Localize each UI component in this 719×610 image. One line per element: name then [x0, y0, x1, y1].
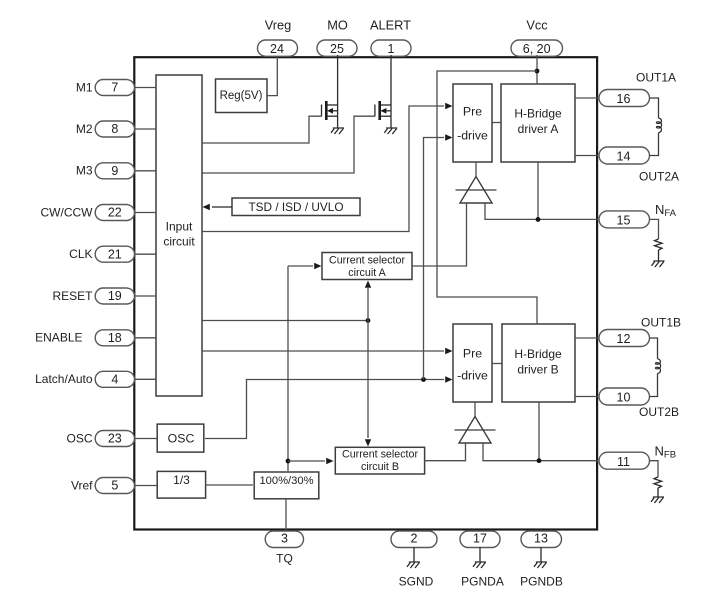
- wire junction to current selector B (arrow down): [365, 321, 371, 447]
- pin Vreg (24): [258, 18, 298, 57]
- svg-text:TSD / ISD / UVLO: TSD / ISD / UVLO: [248, 200, 343, 214]
- svg-text:25: 25: [330, 42, 344, 56]
- pin NFB (11): [599, 444, 676, 470]
- svg-text:5: 5: [111, 479, 118, 493]
- wire RESET to input circuit: [134, 295, 156, 297]
- svg-text:circuit B: circuit B: [361, 461, 399, 473]
- svg-text:OSC: OSC: [66, 431, 92, 445]
- svg-text:18: 18: [108, 331, 122, 345]
- svg-text:11: 11: [617, 455, 630, 469]
- svg-text:24: 24: [270, 42, 284, 56]
- svg-text:OUT1A: OUT1A: [636, 71, 676, 85]
- node NFB junction: [537, 458, 542, 463]
- current selector circuit B block: [335, 447, 424, 474]
- svg-text:OUT2B: OUT2B: [639, 405, 679, 419]
- TSD/ISD/UVLO block: [232, 198, 360, 216]
- pin Vcc (6, 20): [511, 18, 563, 57]
- svg-text:ENABLE: ENABLE: [35, 331, 82, 345]
- pin OUT1B (12): [599, 316, 681, 347]
- wire Vcc junction to H-bridge B: [437, 71, 537, 324]
- svg-text:Reg(5V): Reg(5V): [220, 90, 263, 102]
- svg-text:circuit: circuit: [163, 235, 195, 249]
- wire junction to current selector B left input (arrow): [288, 458, 334, 464]
- wire junction to pre-drive A lower input: [424, 134, 453, 379]
- pin TQ (3): [265, 531, 303, 566]
- svg-text:1/3: 1/3: [173, 473, 190, 487]
- svg-text:M3: M3: [76, 164, 93, 178]
- pin Latch/Auto (4): [35, 371, 134, 387]
- pre-drive A block: [453, 84, 492, 162]
- svg-text:21: 21: [108, 247, 122, 261]
- svg-text:OUT2A: OUT2A: [639, 170, 679, 184]
- wire TQ pin to 100%/30% block: [285, 499, 287, 532]
- svg-text:Current selector: Current selector: [329, 254, 405, 266]
- pin NFA (15): [599, 202, 677, 228]
- wire input circuit to pre-drive B upper input: [202, 348, 453, 354]
- node current selector feed junction: [366, 318, 371, 323]
- ground SGND: [407, 562, 420, 568]
- svg-text:Pre: Pre: [463, 105, 482, 119]
- svg-text:OUT1B: OUT1B: [641, 316, 681, 330]
- wire PGNDA pin to ground: [479, 548, 481, 563]
- wire H-bridge B to pin 10: [575, 396, 598, 398]
- svg-text:19: 19: [108, 289, 122, 303]
- svg-text:22: 22: [108, 206, 122, 220]
- comparator A: [456, 177, 497, 204]
- wire OSC pin to OSC block: [134, 438, 157, 440]
- svg-text:4: 4: [111, 373, 118, 387]
- MOSFET Q1 (MO open-drain output): [322, 55, 338, 128]
- pin M2 (8): [76, 121, 135, 137]
- pin CLK (21): [69, 246, 134, 262]
- wire input circuit to pre-drive A upper input: [202, 103, 453, 232]
- svg-text:Input: Input: [166, 220, 193, 234]
- pin PGNDA (17): [460, 531, 504, 589]
- pin OUT1A (16): [599, 71, 676, 107]
- wire H-bridge B to NFB node: [538, 402, 540, 461]
- wire current selector B to comparator B input: [424, 443, 466, 461]
- wire CW/CCW to input circuit: [134, 212, 156, 214]
- svg-text:17: 17: [473, 532, 487, 546]
- svg-text:10: 10: [617, 391, 631, 405]
- node NFA junction: [536, 217, 541, 222]
- svg-text:3: 3: [281, 532, 288, 546]
- wire 100%/30% output rail: [287, 266, 289, 471]
- MOSFET Q2 (ALERT open-drain output): [375, 55, 391, 128]
- node 100%/30% output junction: [286, 459, 291, 464]
- H-Bridge driver B block: [502, 324, 575, 402]
- resistor RNFA: [650, 219, 662, 260]
- OSC block: [157, 424, 204, 452]
- wire H-bridge A to pin 14: [575, 155, 598, 157]
- ground NFA: [652, 261, 665, 267]
- svg-text:2: 2: [411, 532, 418, 546]
- svg-text:12: 12: [617, 332, 631, 346]
- pin RESET (19): [52, 288, 134, 304]
- svg-text:Vref: Vref: [71, 478, 93, 492]
- svg-text:MO: MO: [327, 18, 348, 33]
- wire H-bridge B to pin 12: [575, 337, 598, 339]
- wire comparator A sense input: [485, 203, 538, 219]
- svg-text:7: 7: [111, 81, 118, 95]
- 1/3 block: [157, 471, 205, 498]
- pin OUT2B (10): [599, 388, 679, 419]
- svg-text:driver A: driver A: [518, 122, 559, 136]
- inductor load B: [650, 338, 661, 397]
- pin M1 (7): [76, 80, 135, 96]
- wire 1/3 to 100%/30%: [205, 484, 253, 486]
- wire pre-drive A to H-bridge A: [492, 122, 501, 124]
- pin OSC (23): [66, 431, 134, 447]
- wire Vref pin to 1/3 block: [134, 485, 157, 487]
- svg-text:-drive: -drive: [457, 128, 488, 142]
- ground PGNDB: [534, 562, 547, 568]
- svg-text:13: 13: [534, 532, 548, 546]
- ground Q2 source: [384, 128, 397, 134]
- wire comparator A output to pre-drive A: [475, 162, 477, 177]
- comparator B: [455, 417, 496, 444]
- pin MO (25): [317, 18, 357, 57]
- svg-text:driver B: driver B: [517, 362, 558, 376]
- svg-text:1: 1: [388, 42, 395, 56]
- wire comparator B sense input: [483, 443, 539, 461]
- wire current selector A to comparator A input: [412, 203, 467, 266]
- wire junction to current selector A (arrow up): [365, 281, 371, 321]
- current selector circuit A block: [322, 253, 412, 280]
- H-Bridge driver A block: [501, 84, 575, 162]
- wire comparator B output to pre-drive B: [474, 402, 476, 417]
- svg-text:15: 15: [617, 214, 631, 228]
- svg-text:NFB: NFB: [655, 444, 677, 461]
- wire M1 to input circuit: [134, 87, 156, 89]
- IC outline: [134, 57, 597, 529]
- svg-text:circuit A: circuit A: [348, 267, 386, 279]
- svg-text:PGNDA: PGNDA: [461, 575, 504, 589]
- wire input circuit to Q2 gate: [202, 116, 375, 173]
- ground NFB: [651, 497, 664, 503]
- wire Latch/Auto to input circuit: [134, 378, 156, 380]
- pre-drive B block: [453, 324, 492, 402]
- svg-text:OSC: OSC: [168, 432, 195, 446]
- svg-text:H-Bridge: H-Bridge: [514, 107, 562, 121]
- svg-text:Latch/Auto: Latch/Auto: [35, 372, 93, 386]
- svg-text:16: 16: [617, 92, 631, 106]
- pin CW/CCW (22): [41, 205, 135, 221]
- svg-text:H-Bridge: H-Bridge: [514, 347, 562, 361]
- svg-text:9: 9: [111, 164, 118, 178]
- resistor RNFB: [650, 461, 662, 497]
- pin OUT2A (14): [599, 147, 679, 184]
- wire PGNDB pin to ground: [540, 548, 542, 563]
- wire H-bridge A to NFA node: [537, 162, 539, 219]
- 100%/30% block: [254, 472, 319, 499]
- wire OSC to pre-drive B lower input: [205, 376, 453, 438]
- svg-text:6, 20: 6, 20: [523, 42, 551, 56]
- node OSC feed junction: [421, 377, 426, 382]
- wire input circuit to Q1 gate: [202, 116, 322, 143]
- wire ENABLE to input circuit: [134, 337, 156, 339]
- wire SGND pin to ground: [413, 548, 415, 563]
- wire NFA junction to pin 15: [538, 218, 598, 220]
- inductor load A: [650, 98, 662, 156]
- pin M3 (9): [76, 163, 135, 179]
- node Vcc junction: [535, 69, 540, 74]
- svg-text:ALERT: ALERT: [370, 18, 411, 33]
- svg-text:PGNDB: PGNDB: [520, 575, 563, 589]
- svg-text:23: 23: [108, 432, 122, 446]
- wire M2 to input circuit: [134, 128, 156, 130]
- svg-text:Current selector: Current selector: [342, 449, 418, 461]
- svg-text:100%/30%: 100%/30%: [259, 475, 313, 487]
- wire M3 to input circuit: [134, 170, 156, 172]
- svg-text:-drive: -drive: [457, 369, 488, 383]
- svg-text:Vcc: Vcc: [526, 18, 548, 33]
- svg-text:Vreg: Vreg: [265, 18, 292, 33]
- svg-text:M2: M2: [76, 122, 93, 136]
- pin ENABLE (18): [35, 330, 134, 346]
- svg-text:M1: M1: [76, 80, 93, 94]
- wire H-bridge A to pin 16: [575, 97, 598, 99]
- Reg(5V) block: [216, 79, 268, 113]
- svg-text:SGND: SGND: [399, 575, 434, 589]
- wire TSD block to input circuit (arrow): [203, 204, 233, 210]
- wire Vreg pin to Reg(5V): [267, 56, 277, 96]
- input circuit block: [156, 75, 202, 396]
- wire Vcc pin down to H-bridge A: [536, 55, 538, 84]
- pin ALERT (1): [370, 18, 411, 57]
- pin PGNDB (13): [520, 531, 563, 589]
- svg-text:14: 14: [617, 150, 631, 164]
- svg-text:CW/CCW: CW/CCW: [41, 205, 94, 219]
- wire pre-drive B to H-bridge B: [492, 363, 502, 365]
- ground PGNDA: [473, 562, 486, 568]
- svg-text:NFA: NFA: [655, 202, 677, 219]
- ground Q1 source: [331, 128, 344, 134]
- svg-text:CLK: CLK: [69, 247, 92, 261]
- svg-text:TQ: TQ: [276, 552, 293, 566]
- wire input circuit to current selectors: [202, 320, 368, 322]
- svg-text:8: 8: [111, 122, 118, 136]
- wire rail to current selector A left input (arrow): [288, 263, 322, 269]
- pin SGND (2): [391, 531, 437, 589]
- pin Vref (5): [71, 478, 135, 494]
- svg-text:Pre: Pre: [463, 346, 482, 360]
- wire NFB junction to pin 11: [539, 460, 598, 462]
- svg-text:RESET: RESET: [52, 289, 93, 303]
- wire CLK to input circuit: [134, 253, 156, 255]
